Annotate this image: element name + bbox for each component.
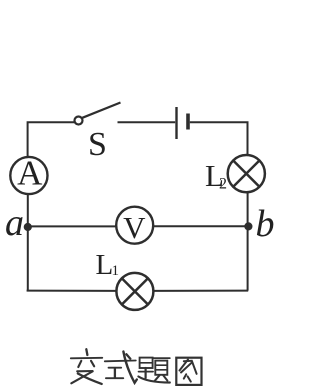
wire battery to top-right corner down to L2 [190, 122, 248, 155]
caption char 图 [176, 358, 201, 385]
lamp L1 cross [122, 278, 148, 304]
node b dot [244, 222, 252, 230]
svg-text:1: 1 [112, 263, 120, 279]
caption char 式 [105, 352, 137, 383]
svg-text:b: b [256, 203, 275, 245]
svg-text:a: a [5, 202, 24, 244]
lamp L1 circle [116, 273, 153, 310]
ammeter A circle [10, 157, 47, 194]
svg-text:S: S [88, 126, 107, 163]
svg-text:V: V [123, 210, 146, 245]
wire switch to battery [118, 121, 176, 123]
svg-text:2: 2 [219, 176, 227, 193]
lamp L2 circle [228, 155, 265, 192]
battery long plate [175, 107, 177, 139]
wire ammeter to bottom-left corner [27, 194, 29, 291]
bottom wire left of L1 [27, 290, 117, 292]
caption char 题 [138, 358, 169, 383]
switch S pivot [75, 117, 83, 125]
switch S lever [82, 103, 120, 118]
battery short plate [186, 114, 190, 130]
svg-text:A: A [17, 154, 43, 193]
bottom wire right of L1 [153, 290, 248, 292]
voltmeter V circle [116, 207, 153, 244]
wire node a to voltmeter [29, 225, 117, 227]
wire L2 to bottom-right corner [247, 192, 249, 291]
lamp L2 cross [233, 161, 259, 187]
node a dot [24, 223, 32, 231]
wire voltmeter to node b [153, 225, 246, 227]
caption char 变 [71, 349, 103, 384]
wire top-left corner segment [28, 122, 75, 156]
